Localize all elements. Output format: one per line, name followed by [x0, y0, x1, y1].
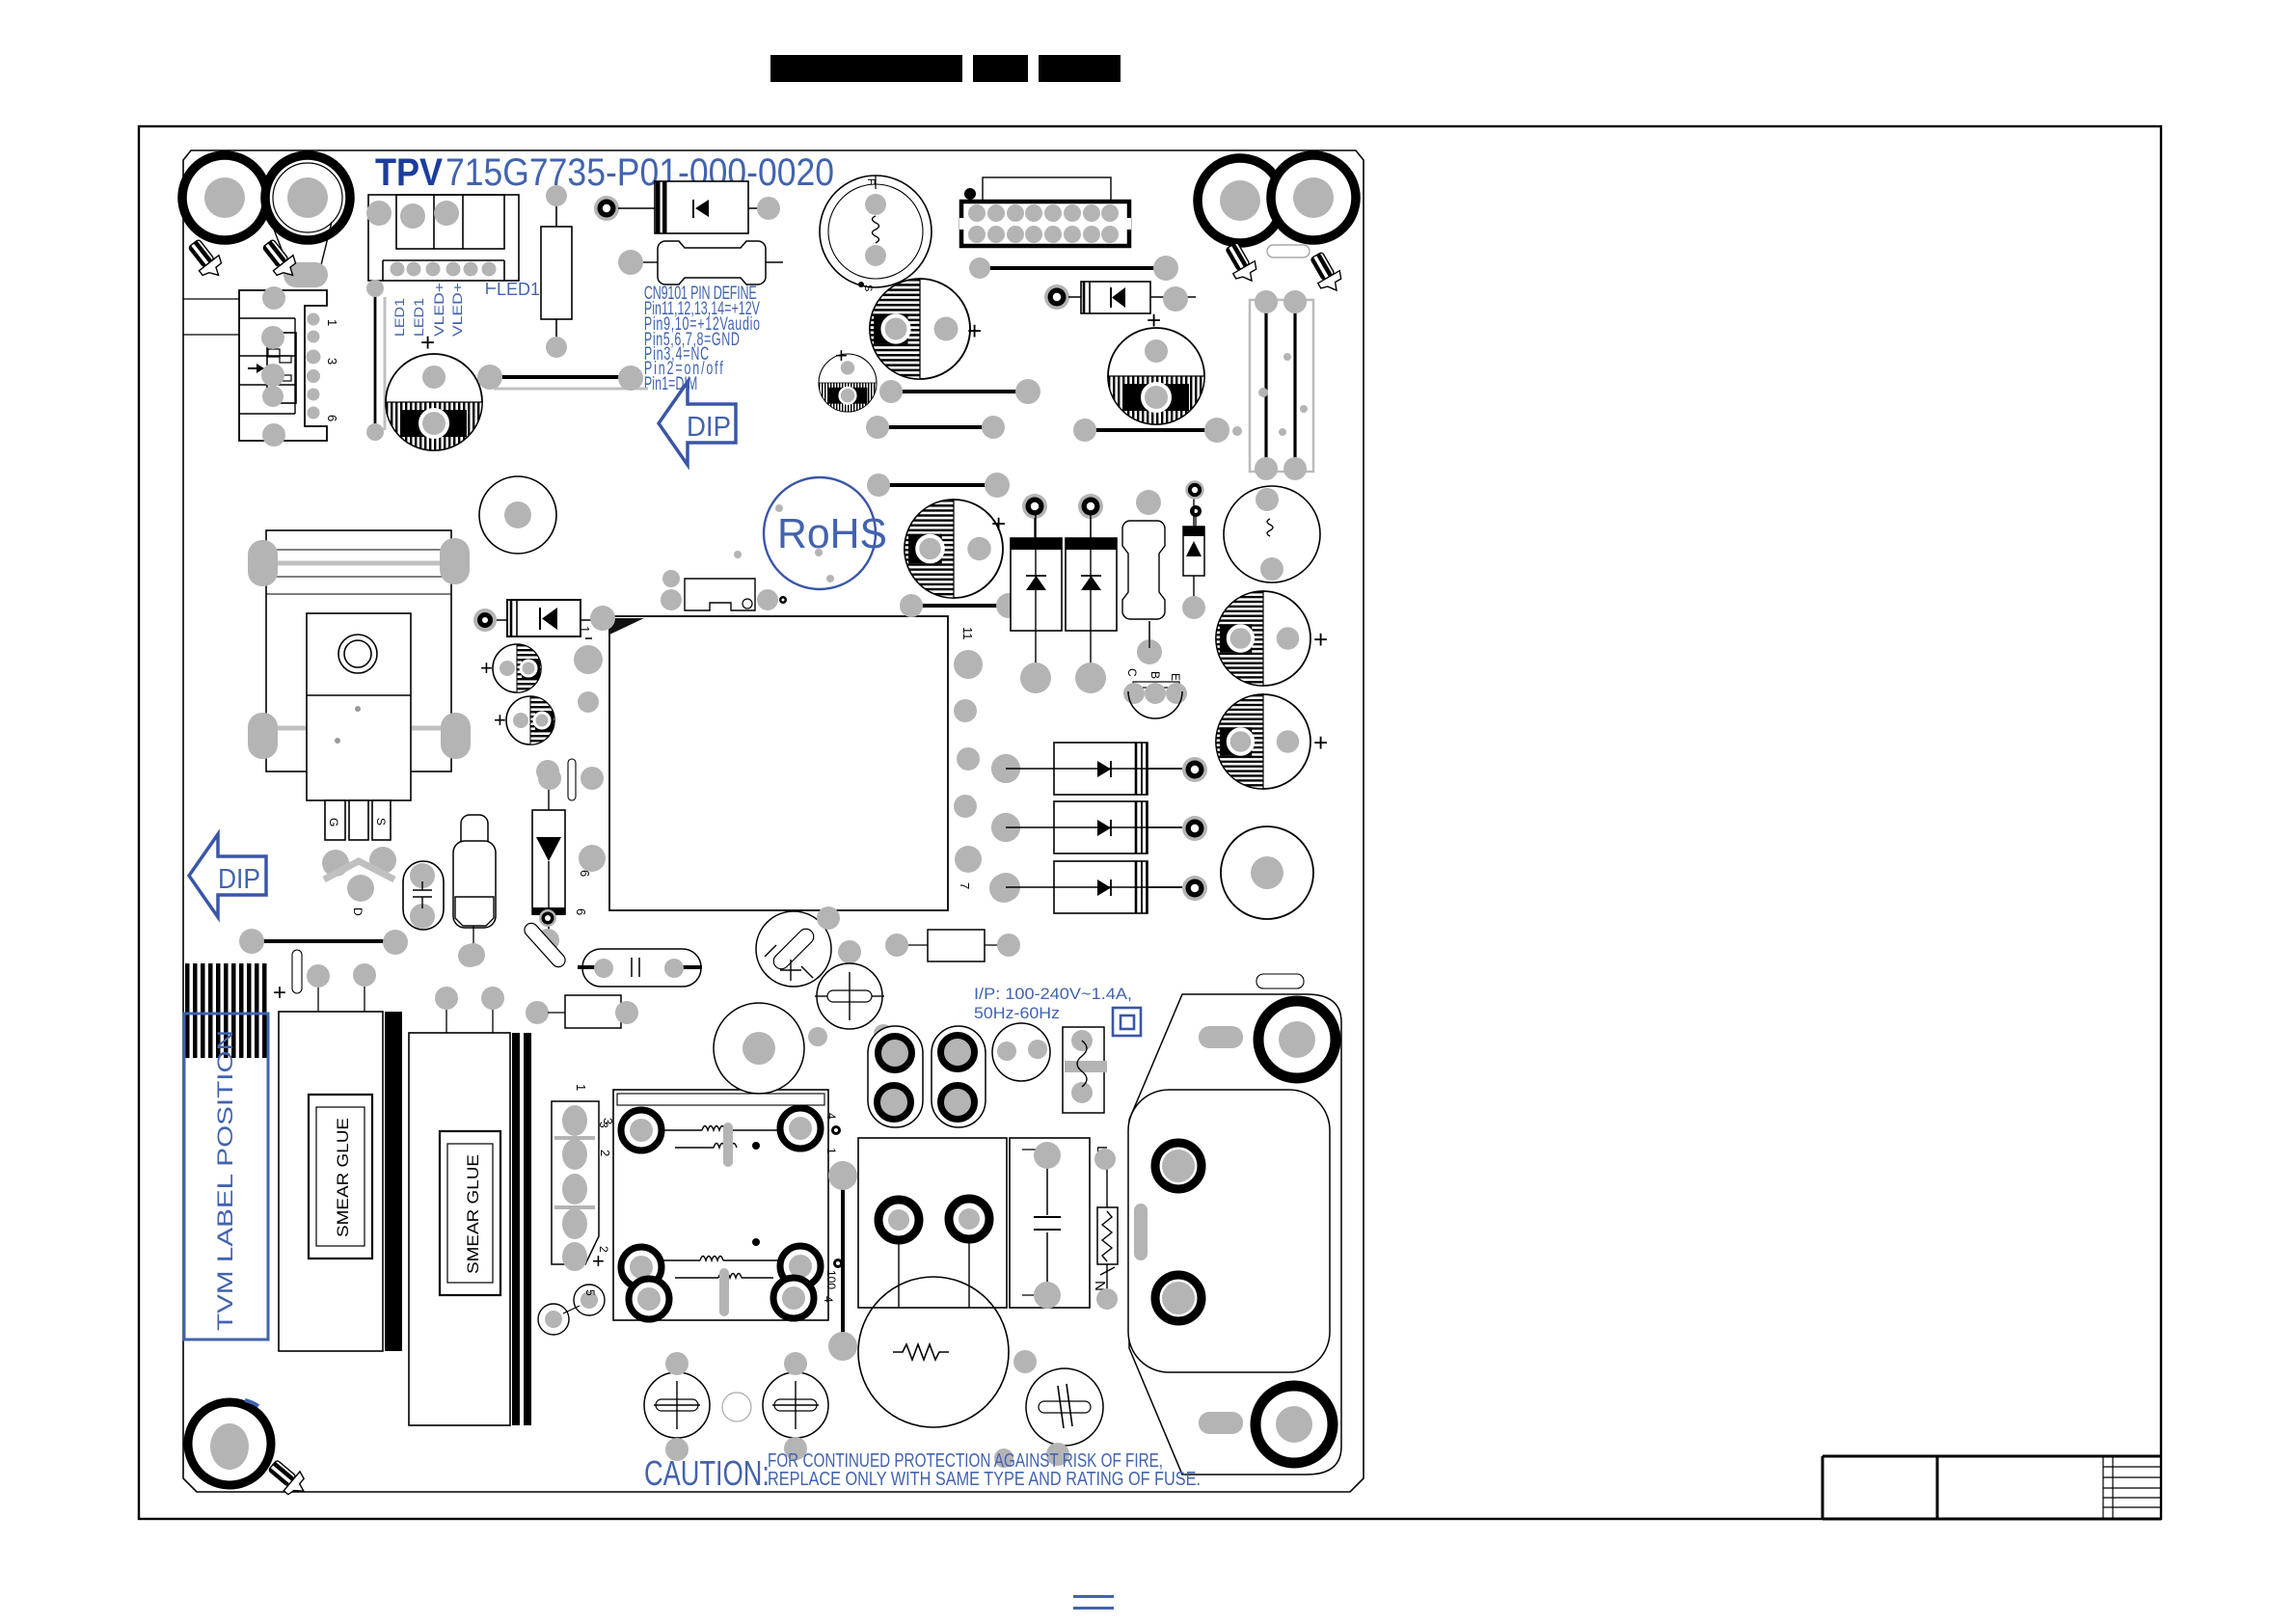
svg-text:S: S	[862, 284, 874, 291]
svg-text:D: D	[351, 907, 365, 916]
svg-text:LED1: LED1	[392, 298, 407, 337]
svg-text:+: +	[592, 1249, 605, 1273]
svg-text:+: +	[420, 328, 435, 357]
svg-text:C: C	[1125, 668, 1139, 677]
svg-text:6: 6	[325, 415, 339, 421]
svg-text:S: S	[374, 818, 388, 826]
svg-text:3: 3	[325, 358, 339, 365]
svg-text:DIP: DIP	[687, 412, 731, 443]
svg-text:TPV: TPV	[375, 151, 443, 194]
svg-text:F: F	[865, 178, 877, 185]
svg-text:REPLACE ONLY WITH SAME TYPE AN: REPLACE ONLY WITH SAME TYPE AND RATING O…	[768, 1469, 1201, 1490]
svg-text:SMEAR GLUE: SMEAR GLUE	[464, 1154, 482, 1274]
svg-text:1: 1	[824, 1148, 838, 1154]
svg-text:TVM LABEL POSITION: TVM LABEL POSITION	[213, 1030, 237, 1331]
svg-text:6: 6	[574, 908, 588, 915]
svg-text:715G7735-P01-000-0020: 715G7735-P01-000-0020	[446, 151, 834, 194]
svg-text:E: E	[1169, 673, 1182, 681]
svg-text:4: 4	[822, 1296, 835, 1303]
svg-text:CAUTION:: CAUTION:	[644, 1453, 770, 1493]
svg-text:+: +	[1313, 625, 1328, 654]
svg-text:+: +	[480, 656, 493, 680]
svg-text:SMEAR GLUE: SMEAR GLUE	[334, 1118, 352, 1237]
svg-text:11: 11	[960, 627, 975, 640]
svg-text:1: 1	[574, 1084, 588, 1091]
svg-text:5: 5	[583, 1289, 597, 1296]
svg-text:+: +	[967, 316, 982, 345]
svg-text:4: 4	[824, 1113, 838, 1120]
svg-text:1: 1	[578, 626, 592, 633]
svg-text:+: +	[1147, 306, 1161, 335]
svg-text:3: 3	[597, 1122, 610, 1128]
svg-text:2: 2	[597, 1246, 610, 1253]
svg-text:Pin1=DIM: Pin1=DIM	[644, 373, 697, 393]
svg-text:50Hz-60Hz: 50Hz-60Hz	[974, 1005, 1060, 1022]
svg-text:G: G	[327, 818, 340, 826]
svg-text:RoHS: RoHS	[777, 510, 887, 557]
svg-text:DIP: DIP	[218, 864, 260, 895]
svg-text:I/P: 100-240V~1.4A,: I/P: 100-240V~1.4A,	[974, 986, 1132, 1003]
svg-text:7: 7	[958, 882, 972, 889]
svg-text:+: +	[1313, 728, 1328, 757]
svg-text:100: 100	[824, 1270, 838, 1289]
svg-text:B: B	[1148, 671, 1162, 679]
svg-text:+: +	[991, 509, 1006, 538]
svg-text:+: +	[835, 343, 848, 367]
svg-text:LED1: LED1	[497, 280, 540, 299]
svg-text:1: 1	[325, 319, 339, 326]
svg-text:+: +	[273, 980, 286, 1006]
svg-text:+: +	[494, 708, 506, 732]
svg-text:VLED+: VLED+	[449, 283, 465, 337]
svg-text:2: 2	[598, 1150, 612, 1156]
